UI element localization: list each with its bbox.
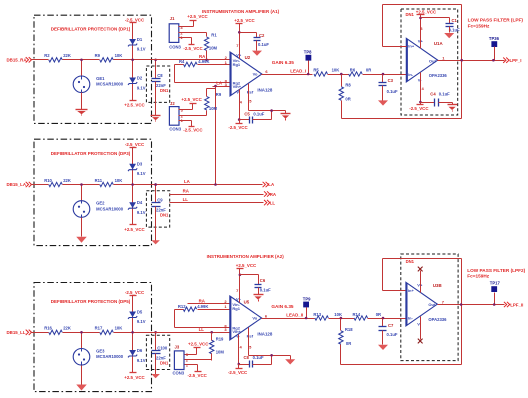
power +2.5_VCC at U2 pin7 — [234, 18, 255, 59]
wire main row segments — [31, 332, 152, 334]
resistor R2 22K — [44, 53, 71, 62]
svg-text:C1: C1 — [452, 18, 458, 23]
junction R18 tap — [340, 317, 343, 320]
svg-text:V-: V- — [417, 322, 421, 327]
svg-text:+2.5_VCC: +2.5_VCC — [124, 102, 145, 107]
svg-text:INSTRUMENTATION AMPLIFIER (A1): INSTRUMENTATION AMPLIFIER (A1) — [202, 9, 280, 14]
junction U1A V- node — [419, 101, 422, 104]
capacitor C5 0.1uF bypass — [240, 111, 272, 124]
svg-text:GAIN 6.35: GAIN 6.35 — [271, 304, 294, 309]
power +2.5_VCC — [124, 373, 145, 380]
svg-text:Vo: Vo — [252, 316, 257, 321]
junction at tube tap — [80, 183, 83, 186]
svg-text:10K: 10K — [115, 326, 123, 331]
svg-text:DN1: DN1 — [406, 259, 415, 264]
wire U5 pin4 down — [238, 335, 240, 365]
section title low pass filter LPF2 — [467, 268, 525, 279]
svg-text:DN1: DN1 — [160, 88, 169, 93]
net label RA row 2 — [183, 188, 190, 193]
svg-text:DEFIBRILLATOR PROTECTION (DP1): DEFIBRILLATOR PROTECTION (DP1) — [51, 27, 131, 32]
svg-text:LL: LL — [270, 200, 276, 205]
resistor R13 10K — [313, 312, 342, 320]
junction LA row vertical — [214, 183, 217, 186]
svg-text:MCSAR10000: MCSAR10000 — [96, 354, 124, 359]
power +2.5_VCC at J2 pin3 — [179, 97, 203, 110]
svg-text:4.99K: 4.99K — [197, 304, 208, 309]
svg-text:Ref: Ref — [247, 89, 254, 94]
net label RA at A2 — [199, 298, 206, 303]
svg-text:9.1V: 9.1V — [137, 358, 146, 363]
svg-text:0.1uF: 0.1uF — [439, 91, 450, 96]
svg-text:9.1V: 9.1V — [137, 319, 146, 324]
svg-text:U2: U2 — [245, 55, 251, 60]
pin numbers U3B — [442, 300, 445, 305]
junction at diode column — [131, 331, 134, 334]
svg-text:+2.5_VCC: +2.5_VCC — [236, 263, 257, 268]
input port DB15_LL — [7, 330, 35, 335]
pin numbers U2 — [225, 43, 269, 104]
svg-text:LEAD_I: LEAD_I — [290, 68, 306, 73]
svg-text:C9: C9 — [157, 198, 163, 203]
wire LA vertical to row 2 — [215, 87, 217, 185]
label DN1 LPF2 — [406, 259, 415, 264]
svg-text:10K: 10K — [332, 68, 340, 73]
resistor R5 10K — [313, 68, 339, 77]
svg-text:D2: D2 — [137, 75, 143, 80]
wire R4 loop to Rg2 — [175, 65, 231, 83]
svg-text:J2: J2 — [170, 101, 175, 106]
svg-text:D6: D6 — [137, 348, 143, 353]
svg-text:CON3: CON3 — [173, 370, 185, 375]
DNP box LPF1 — [401, 9, 458, 115]
section title DP1 — [51, 27, 131, 32]
svg-text:V+: V+ — [236, 297, 242, 302]
net label LA row 2 — [184, 179, 191, 184]
ground below C2 — [252, 41, 262, 56]
label GAIN 6.35 (A1) — [272, 60, 295, 65]
resistor R9 10M — [205, 89, 222, 114]
net label LA — [216, 81, 223, 86]
gas discharge tube GE1 MCSAR10000 — [73, 60, 124, 110]
resistor R8 0R — [339, 75, 351, 119]
junction feedback-output — [460, 59, 463, 62]
op-amp U3B OPA2336 — [406, 282, 447, 326]
power +2.5_VCC at J1 pin3 — [179, 14, 209, 26]
svg-text:C6: C6 — [260, 278, 266, 283]
svg-text:RA: RA — [270, 192, 277, 197]
test point TP36 — [489, 36, 500, 60]
power +2.5_VCC at J3 pin3 — [185, 341, 210, 354]
junction U5 V- node — [238, 363, 241, 366]
junction LA column — [214, 85, 217, 88]
zener diode D3 9.1V — [128, 148, 146, 185]
ground below C1 — [444, 27, 454, 39]
wire U3B output — [438, 304, 505, 306]
net label LEAD_II — [286, 312, 303, 317]
resistor R19 10M — [210, 333, 225, 361]
svg-text:-2.5_VCC: -2.5_VCC — [409, 106, 429, 111]
junction C3 tap — [382, 73, 385, 76]
svg-text:C2: C2 — [259, 33, 265, 38]
svg-text:9.1V: 9.1V — [137, 46, 146, 51]
svg-text:CON3: CON3 — [169, 44, 181, 49]
gas discharge tube GE3 MCSAR10000 — [73, 333, 124, 382]
svg-text:+2.5_VCC: +2.5_VCC — [188, 341, 209, 346]
svg-text:Vin+: Vin+ — [233, 84, 242, 89]
op-amp U1A OPA2336 — [406, 38, 447, 82]
svg-text:DB15_LA: DB15_LA — [7, 182, 27, 187]
svg-text:C4: C4 — [430, 91, 436, 96]
svg-text:9.1V: 9.1V — [137, 85, 146, 90]
svg-text:+2.5_VCC: +2.5_VCC — [181, 97, 202, 102]
section title DP5 — [51, 299, 131, 304]
ground below C100 — [151, 354, 160, 379]
svg-text:C8: C8 — [157, 73, 163, 78]
svg-text:0.1uF: 0.1uF — [387, 89, 398, 94]
section title instrumentation amplifier A1 — [202, 9, 280, 14]
svg-text:In-: In- — [408, 316, 414, 321]
port RA — [264, 191, 277, 197]
capacitor C1 0.1uF — [421, 18, 461, 33]
svg-text:LA: LA — [268, 182, 275, 187]
DNP box LPF2 — [401, 254, 458, 361]
power -2.5_VCC at J3 pin1 — [185, 365, 208, 379]
power -2.5_VCC at U2 pin4 — [228, 120, 248, 130]
svg-text:10K: 10K — [334, 312, 342, 317]
op-amp U5 INA128 — [230, 296, 273, 340]
junction TP8 — [307, 73, 310, 76]
svg-text:DEFIBRILLATOR PROTECTION (DP5): DEFIBRILLATOR PROTECTION (DP5) — [51, 299, 131, 304]
junction R8 tap — [340, 73, 343, 76]
svg-text:9.1V: 9.1V — [137, 210, 146, 215]
test point TP8 — [304, 50, 312, 75]
power -2.5_VCC at J1 pin1 — [179, 38, 204, 51]
capacitor C2 0.1uF bypass — [240, 33, 270, 48]
svg-text:-2.5_VCC: -2.5_VCC — [125, 17, 145, 22]
resistor R10 22K — [44, 178, 71, 187]
wire main row segments — [31, 59, 152, 61]
ground at U5 Ref — [285, 356, 295, 365]
svg-text:R14: R14 — [353, 312, 361, 317]
ground at U2 Ref — [281, 111, 291, 121]
svg-text:-2.5_VCC: -2.5_VCC — [228, 370, 248, 375]
power -2.5_VCC — [125, 142, 145, 148]
svg-text:LA: LA — [216, 81, 223, 86]
svg-text:+2.5_VCC: +2.5_VCC — [124, 227, 145, 232]
svg-text:C3: C3 — [388, 78, 394, 83]
port LL — [264, 200, 275, 206]
ground below C3 — [378, 86, 388, 106]
svg-text:R6: R6 — [350, 68, 356, 73]
svg-text:R11: R11 — [95, 178, 103, 183]
no-connect X at U3B V- — [418, 317, 423, 344]
feedback wire U3B — [383, 259, 462, 305]
net label LL at A2 — [199, 327, 205, 332]
capacitor C4 0.1uF — [421, 91, 453, 106]
svg-text:GAIN 6.35: GAIN 6.35 — [272, 60, 295, 65]
input port DB15_LA — [7, 182, 35, 187]
svg-text:Vo: Vo — [253, 72, 258, 77]
junction U5 V+ branch — [239, 274, 242, 277]
svg-text:R4: R4 — [179, 59, 185, 64]
svg-text:0R: 0R — [345, 97, 350, 102]
svg-text:D4: D4 — [137, 200, 143, 205]
svg-text:MCSAR10000: MCSAR10000 — [96, 82, 124, 87]
junction Ref-C8 A2 — [270, 354, 273, 357]
svg-text:Out: Out — [429, 58, 437, 63]
resistor R9 10K — [95, 53, 123, 62]
section title low pass filter LPF — [468, 18, 524, 29]
svg-text:4.99K: 4.99K — [198, 59, 209, 64]
svg-text:DB15_LL: DB15_LL — [7, 330, 26, 335]
DNP box C8 — [146, 66, 169, 102]
wire U2 pin5 Ref to ground — [249, 84, 286, 111]
svg-text:LL: LL — [199, 327, 205, 332]
wire R12 loop to Rg2 — [175, 310, 230, 328]
svg-text:TP9: TP9 — [303, 296, 311, 301]
svg-text:-2.5_VCC: -2.5_VCC — [125, 142, 145, 147]
defibrillator protection box DP5 — [34, 283, 152, 392]
svg-text:+2.5_VCC: +2.5_VCC — [234, 18, 255, 23]
svg-text:R16: R16 — [44, 326, 52, 331]
no-connect X at U3B V+ — [418, 267, 423, 293]
svg-text:J3: J3 — [175, 345, 180, 350]
power -2.5_VCC at J2 pin1 — [179, 121, 204, 133]
wire R13 to R14 — [329, 318, 355, 320]
svg-text:DN1: DN1 — [160, 360, 169, 365]
test point TP17 — [490, 281, 501, 305]
zener diode D4 9.1V — [128, 185, 146, 225]
svg-text:R9: R9 — [216, 92, 222, 97]
capacitor C7 0.1uF — [379, 319, 398, 338]
svg-text:In+: In+ — [408, 44, 415, 49]
capacitor C3 0.1uF — [379, 75, 398, 95]
wire R14 to U3B In- — [368, 318, 406, 320]
power -2.5_VCC at U5 pin4 — [228, 365, 248, 376]
resistor R1 10M — [204, 33, 217, 60]
svg-text:0.1uF: 0.1uF — [387, 332, 398, 337]
output port LPF_I — [503, 58, 521, 64]
input port DB15_RA — [7, 57, 35, 62]
label DN1 LPF1 — [406, 12, 415, 17]
junction feedback-output A2 — [460, 303, 463, 306]
svg-text:9.1V: 9.1V — [137, 171, 146, 176]
ground below C6 — [254, 288, 264, 302]
svg-text:RA: RA — [183, 188, 190, 193]
wire RA row 2 — [170, 194, 264, 196]
svg-text:22K: 22K — [63, 178, 71, 183]
svg-text:LOW PASS FILTER (LPF2): LOW PASS FILTER (LPF2) — [467, 268, 525, 273]
svg-text:Fc=159Hz: Fc=159Hz — [467, 274, 489, 279]
svg-text:U3B: U3B — [433, 283, 442, 288]
ground below GE1 — [76, 110, 88, 116]
DNP box C100 — [146, 335, 169, 369]
defibrillator protection box DP1 — [34, 15, 152, 123]
resistor R6 0R — [349, 68, 372, 77]
svg-text:-2.5_VCC: -2.5_VCC — [188, 373, 208, 378]
junction U2 V+ branch — [238, 31, 241, 34]
svg-text:RA: RA — [199, 298, 206, 303]
wire LA row 2 — [152, 184, 263, 186]
wire J3 pin2 to R19 — [185, 360, 212, 361]
svg-text:+2.5_VCC: +2.5_VCC — [187, 14, 208, 19]
wire RA row to U2 Vin- — [152, 59, 231, 61]
svg-text:R18: R18 — [345, 327, 353, 332]
svg-text:0.1uF: 0.1uF — [258, 42, 269, 47]
ground below C7 — [378, 331, 388, 351]
resistor R12 4.99K gain set — [178, 304, 230, 312]
wire R5 to R6 — [328, 74, 349, 76]
svg-text:INSTRUMENTATION AMPLIFIER (A2): INSTRUMENTATION AMPLIFIER (A2) — [207, 254, 285, 259]
svg-text:OPA2336: OPA2336 — [429, 73, 448, 78]
capacitor C100 22nF — [152, 333, 168, 361]
wire J1 pin2 to R1 — [179, 33, 207, 37]
resistor R14 0R — [353, 312, 382, 320]
resistor R16 22K — [44, 326, 71, 335]
svg-text:C100: C100 — [157, 346, 168, 351]
svg-text:10M: 10M — [209, 106, 218, 111]
svg-text:R17: R17 — [95, 326, 103, 331]
svg-text:DEFIBRILLATOR PROTECTION (DP3): DEFIBRILLATOR PROTECTION (DP3) — [51, 151, 131, 156]
svg-text:22K: 22K — [63, 53, 71, 58]
svg-text:10K: 10K — [115, 53, 123, 58]
svg-text:0.1uF: 0.1uF — [449, 28, 460, 33]
junction at diode column — [131, 183, 134, 186]
svg-text:GE3: GE3 — [96, 349, 105, 354]
svg-text:Fc=159Hz: Fc=159Hz — [468, 24, 490, 29]
svg-text:+2.5_VCC: +2.5_VCC — [124, 375, 145, 380]
output port LPF_II — [504, 302, 523, 308]
op-amp U2 INA128 — [230, 52, 273, 96]
svg-text:J1: J1 — [170, 16, 175, 21]
svg-text:Rg1: Rg1 — [232, 306, 240, 311]
junction above C8 — [154, 59, 157, 62]
label DN1 — [160, 88, 169, 93]
wire LL to U5 Vin+ — [152, 332, 230, 334]
DNP box C9 — [146, 191, 169, 227]
capacitor C8 22nF — [152, 60, 167, 88]
svg-text:R2: R2 — [44, 53, 50, 58]
svg-text:-2.5_VCC: -2.5_VCC — [228, 125, 248, 130]
net label LL row 2 — [183, 197, 189, 202]
svg-text:Rg1: Rg1 — [233, 62, 241, 67]
svg-text:C5: C5 — [244, 111, 250, 116]
svg-text:10M: 10M — [209, 46, 218, 51]
svg-text:INA128: INA128 — [257, 332, 272, 337]
test point TP9 — [303, 296, 311, 318]
svg-text:DN1: DN1 — [406, 12, 415, 17]
junction LL R19 tap — [210, 331, 213, 334]
svg-text:MCSAR10000: MCSAR10000 — [96, 206, 124, 211]
svg-text:DB15_RA: DB15_RA — [7, 57, 28, 62]
zener diode D2 9.1V — [128, 60, 146, 101]
wire U2 pin4 to -2.5_VCC — [239, 90, 241, 120]
ground below GE3 — [76, 382, 87, 391]
ground right of C4 — [448, 103, 458, 112]
wire U5 pin5 Ref to ground — [249, 328, 291, 356]
wire U2 output LEAD_I — [262, 74, 313, 76]
svg-text:LPF_I: LPF_I — [510, 58, 522, 63]
feedback wire U1A — [383, 5, 462, 61]
power -2.5_VCC — [125, 17, 145, 22]
wire R6 to U1A In- — [363, 74, 407, 76]
svg-text:0R: 0R — [366, 68, 371, 73]
svg-text:In-: In- — [408, 72, 414, 77]
connector J3 CON3 — [173, 345, 189, 376]
svg-text:U5: U5 — [244, 299, 250, 304]
junction C7 tap — [382, 317, 385, 320]
junction above C100 — [154, 331, 157, 334]
junction at tube tap — [80, 59, 83, 62]
svg-text:R13: R13 — [313, 312, 321, 317]
junction TP17 — [493, 303, 496, 306]
svg-text:R8: R8 — [345, 82, 351, 87]
power +2.5_VCC at U1A pin8 — [416, 9, 437, 48]
pin numbers U1A — [420, 26, 445, 91]
svg-text:0.1uF: 0.1uF — [253, 111, 264, 116]
svg-text:R10: R10 — [44, 178, 52, 183]
junction at tube tap — [80, 331, 83, 334]
section title DP3 — [51, 151, 131, 156]
svg-text:LPF_II: LPF_II — [510, 302, 523, 307]
wire U1A output — [438, 60, 505, 62]
wire R18 return path to output node — [341, 305, 462, 365]
zener diode D1 9.1V — [128, 23, 146, 60]
junction TP36 — [492, 59, 495, 62]
svg-text:TP8: TP8 — [304, 50, 312, 55]
resistor R4 4.99K gain set — [179, 59, 231, 67]
defibrillator protection box DP3 — [34, 139, 152, 245]
svg-text:R9: R9 — [95, 53, 101, 58]
wire main row segments — [31, 184, 152, 186]
power +2.5_VCC — [124, 101, 145, 108]
svg-text:OPA2336: OPA2336 — [428, 317, 447, 322]
svg-text:22K: 22K — [63, 326, 71, 331]
ground below C8 — [151, 82, 161, 122]
svg-text:0R: 0R — [346, 341, 351, 346]
port LA — [263, 182, 275, 187]
label GAIN 6.35 (A2) — [271, 304, 294, 309]
junction above C9 — [154, 183, 157, 186]
power -2.5_VCC — [125, 290, 145, 296]
svg-text:0R: 0R — [376, 312, 381, 317]
wire U1A pin4 down — [420, 73, 422, 103]
junction U2 V- node — [238, 118, 241, 121]
svg-text:10M: 10M — [216, 349, 225, 354]
label DN1 — [160, 360, 169, 365]
svg-text:R5: R5 — [313, 68, 319, 73]
svg-text:GE2: GE2 — [96, 201, 105, 206]
capacitor C9 22nF — [152, 185, 167, 213]
svg-text:CON3: CON3 — [169, 127, 181, 132]
connector J1 CON3 — [169, 16, 183, 49]
resistor R17 10K — [95, 326, 123, 335]
wire RA to U5 Vin- — [188, 303, 230, 305]
svg-text:C7: C7 — [388, 323, 394, 328]
svg-text:R19: R19 — [216, 337, 224, 342]
junction at diode column — [131, 59, 134, 62]
wire U5 output LEAD_II — [262, 318, 315, 320]
svg-text:GE1: GE1 — [96, 76, 105, 81]
svg-text:Out: Out — [428, 302, 436, 307]
svg-text:LEAD_II: LEAD_II — [286, 312, 303, 317]
svg-text:D1: D1 — [137, 37, 143, 42]
net label LEAD_I — [290, 68, 306, 73]
svg-text:DN1: DN1 — [160, 213, 169, 218]
junction LA row C9 — [154, 183, 157, 186]
svg-text:-2.5_VCC: -2.5_VCC — [183, 46, 203, 51]
ground below GE2 — [76, 234, 87, 243]
